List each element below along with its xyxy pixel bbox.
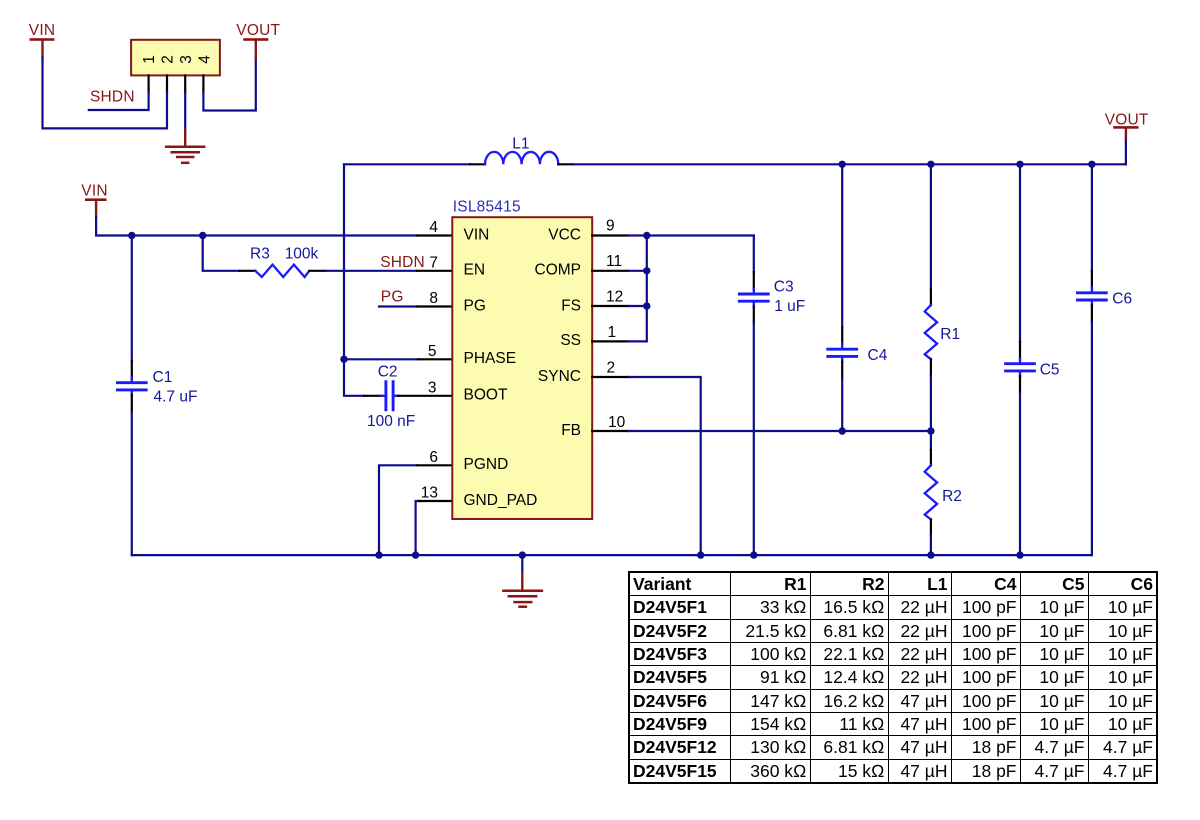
pin label 2 [160,55,177,64]
junction rail/C6 [1088,161,1095,168]
label C6 [1112,291,1132,308]
pin name GND_PAD [464,492,538,509]
label R1 [940,326,960,343]
wire PG stub [379,305,417,307]
svg-text:100 nF: 100 nF [367,413,415,430]
resistor R2 [925,465,937,519]
pin 6 stub (PGND) [417,464,452,466]
pin 11 stub (COMP) [592,270,628,272]
svg-text:EN: EN [464,262,486,279]
variant table [628,571,1158,784]
label C2 value 100 nF [367,413,415,430]
junction PHASE/BOOT [340,356,347,363]
junction SYNC/rail [697,551,704,558]
node VOUT (main) [1105,111,1149,164]
label C5 [1040,362,1060,379]
svg-text:C3: C3 [774,278,794,295]
svg-text:SHDN: SHDN [380,254,425,271]
svg-text:100k: 100k [285,245,319,262]
node VIN (top-left) [29,22,55,58]
svg-text:R2: R2 [942,488,962,505]
wire COMP [629,270,647,272]
svg-text:VIN: VIN [464,226,490,243]
pin name FS [561,297,581,314]
wire C6 bottom [1091,305,1093,322]
resistor R3 [255,265,309,277]
svg-text:C5: C5 [1040,362,1060,379]
pin name BOOT [464,387,508,404]
wire SHDN to pin 1 [89,92,149,110]
junction R2/rail [927,551,934,558]
pin 7 stub (EN) [417,270,452,272]
wire R3 to EN [309,270,326,272]
wire L1 to VOUT rail [558,163,573,165]
svg-text:FB: FB [561,422,581,439]
capacitor C3 [739,289,768,307]
pin name PG [464,297,486,314]
connector J1 [131,40,220,76]
pin 1 lead [148,75,150,92]
pin number 12 [606,289,623,306]
junction C3/rail [750,551,757,558]
wire C6 top [1091,164,1093,271]
wire phase rail [344,163,470,165]
pin number 3 [428,379,437,396]
svg-text:1 uF: 1 uF [774,298,805,315]
wire C3 bottom [753,307,755,324]
label C1 [153,369,173,386]
svg-text:4.7 uF: 4.7 uF [154,389,198,406]
wire C1 bottom lead [131,395,133,412]
svg-text:GND_PAD: GND_PAD [464,492,538,509]
pin name COMP [535,262,582,279]
svg-text:3: 3 [178,55,195,64]
wire R1 bottom [930,359,932,376]
svg-text:VOUT: VOUT [236,22,280,39]
wire FS [629,305,647,307]
junction rail/C5 [1016,161,1023,168]
svg-text:VIN: VIN [29,22,55,39]
wire C3 top [753,236,755,273]
svg-text:L1: L1 [512,135,529,152]
svg-text:PGND: PGND [464,456,509,473]
capacitor C4 [828,344,857,362]
wire C5 top [1019,164,1021,342]
pin number 2 [607,360,616,377]
resistor R1 [925,305,937,359]
pin name VIN [464,226,490,243]
wire VIN drop [43,58,168,129]
pin 1 stub (SS) [592,340,628,342]
pin name PGND [464,456,509,473]
pin 3 lead [184,75,186,92]
svg-text:5: 5 [428,343,437,360]
node VIN (main) [81,183,107,217]
junction FB/C4 [839,427,846,434]
pin 4 lead [202,75,204,92]
pin name EN [464,262,486,279]
label C4 [868,347,888,364]
label C1 value 4.7 uF [154,389,198,406]
wire C4 bottom [841,362,843,379]
junction ground symbol [519,551,526,558]
pin name SYNC [538,368,581,385]
pin 3 stub (BOOT) [398,395,452,397]
node SHDN (top-left) [90,88,135,105]
junction VCC [643,232,650,239]
wire GND_PAD [416,501,419,555]
wire C1 top lead [131,236,133,362]
pin 10 stub (FB) [592,430,628,432]
pin number 9 [606,218,615,235]
junction C1/VIN [128,232,135,239]
svg-text:C2: C2 [378,363,398,380]
svg-text:C4: C4 [868,347,888,364]
svg-text:1: 1 [141,55,158,64]
svg-text:PG: PG [381,288,404,305]
wire PHASE horizontal [344,358,418,360]
wire VCC to C3 [629,234,754,236]
capacitor C5 [1006,358,1035,376]
svg-text:6: 6 [429,449,438,466]
svg-text:8: 8 [429,290,438,307]
pin number 11 [606,253,622,270]
label R3 [250,245,270,262]
junction rail/C4 [839,161,846,168]
pin 2 lead [166,75,168,92]
svg-text:4: 4 [196,55,213,64]
junction GND_PAD/rail [412,551,419,558]
wire R2 bottom [930,519,932,535]
svg-text:11: 11 [606,253,622,270]
label C3 value 1 uF [774,298,805,315]
wire R2 top [930,431,932,450]
capacitor C6 [1078,288,1107,306]
wire C5 bottom [1019,376,1021,393]
svg-text:FS: FS [561,297,581,314]
node PG [381,288,404,305]
pin 13 stub (GND_PAD) [419,500,452,502]
svg-text:COMP: COMP [535,262,582,279]
wire pin 3 to ground [184,92,186,130]
svg-text:R3: R3 [250,245,270,262]
svg-text:SHDN: SHDN [90,88,135,105]
wire PGND [379,465,417,555]
pin label 3 [178,55,195,64]
pin label 1 [141,55,158,64]
svg-text:4: 4 [429,219,438,236]
svg-text:BOOT: BOOT [464,387,508,404]
junction PGND/rail [375,551,382,558]
svg-text:VCC: VCC [548,226,581,243]
pin name VCC [548,226,581,243]
svg-text:2: 2 [160,55,177,64]
svg-text:SYNC: SYNC [538,368,581,385]
ground (main) [503,555,542,607]
label C3 [774,278,794,295]
junction FB/R1/R2 [927,427,934,434]
label R2 [942,488,962,505]
svg-text:1: 1 [608,324,617,341]
svg-text:PG: PG [464,297,486,314]
pin 12 stub (FS) [592,305,628,307]
svg-text:SS: SS [560,332,581,349]
node VOUT (top-left) [236,22,280,58]
junction COMP [643,267,650,274]
capacitor C2 [381,382,399,410]
capacitor C1 [117,377,146,395]
svg-text:VIN: VIN [81,183,107,200]
wire BOOT branch [344,359,364,396]
pin number 10 [608,414,626,431]
pin number 6 [429,449,438,466]
op-amp U1 ISL85415 body [452,217,592,519]
svg-text:ISL85415: ISL85415 [453,199,521,216]
wire pin 4 to VOUT [203,58,255,111]
pin 4 stub (VIN) [417,234,452,236]
svg-text:R1: R1 [940,326,960,343]
svg-text:PHASE: PHASE [464,350,517,367]
junction C5/rail [1016,551,1023,558]
pin number 7 [429,254,438,271]
pin number 8 [429,290,438,307]
svg-text:C6: C6 [1112,291,1132,308]
pin 9 stub (VCC) [592,234,628,236]
svg-text:10: 10 [608,414,626,431]
label U1 ISL85415 [453,199,521,216]
pin 5 stub (PHASE) [418,358,452,360]
wire R1 top [930,164,932,289]
svg-text:7: 7 [429,254,438,271]
junction R3/VIN [199,232,206,239]
pin 2 stub (SYNC) [592,376,628,378]
pin name PHASE [464,350,517,367]
pin number 5 [428,343,437,360]
wire VIN rail [96,217,417,236]
pin 8 stub (PG) [417,305,452,307]
pin number 1 [608,324,617,341]
label R3 value 100k [285,245,319,262]
wire FB [629,430,931,432]
wire ground rail [132,554,1092,556]
ground (connector) [166,130,204,163]
svg-text:VOUT: VOUT [1105,111,1149,128]
wire SS riser [629,236,647,342]
wire SYNC [629,377,701,555]
label L1 [512,135,529,152]
wire C4 top [841,164,843,327]
pin name FB [561,422,581,439]
junction rail/R1 [927,161,934,168]
node SHDN (main) [380,254,425,271]
svg-text:13: 13 [421,485,438,502]
label C2 [378,363,398,380]
svg-text:12: 12 [606,289,623,306]
pin number 4 [429,219,438,236]
junction FS [643,302,650,309]
pin label 4 [196,55,213,64]
pin number 13 [421,485,438,502]
wire PHASE vertical [343,164,345,359]
svg-text:C1: C1 [153,369,173,386]
wire R3 branch [203,236,240,271]
svg-text:3: 3 [428,379,437,396]
inductor L1 [485,152,558,164]
svg-text:2: 2 [607,360,616,377]
pin name SS [560,332,581,349]
svg-text:9: 9 [606,218,615,235]
